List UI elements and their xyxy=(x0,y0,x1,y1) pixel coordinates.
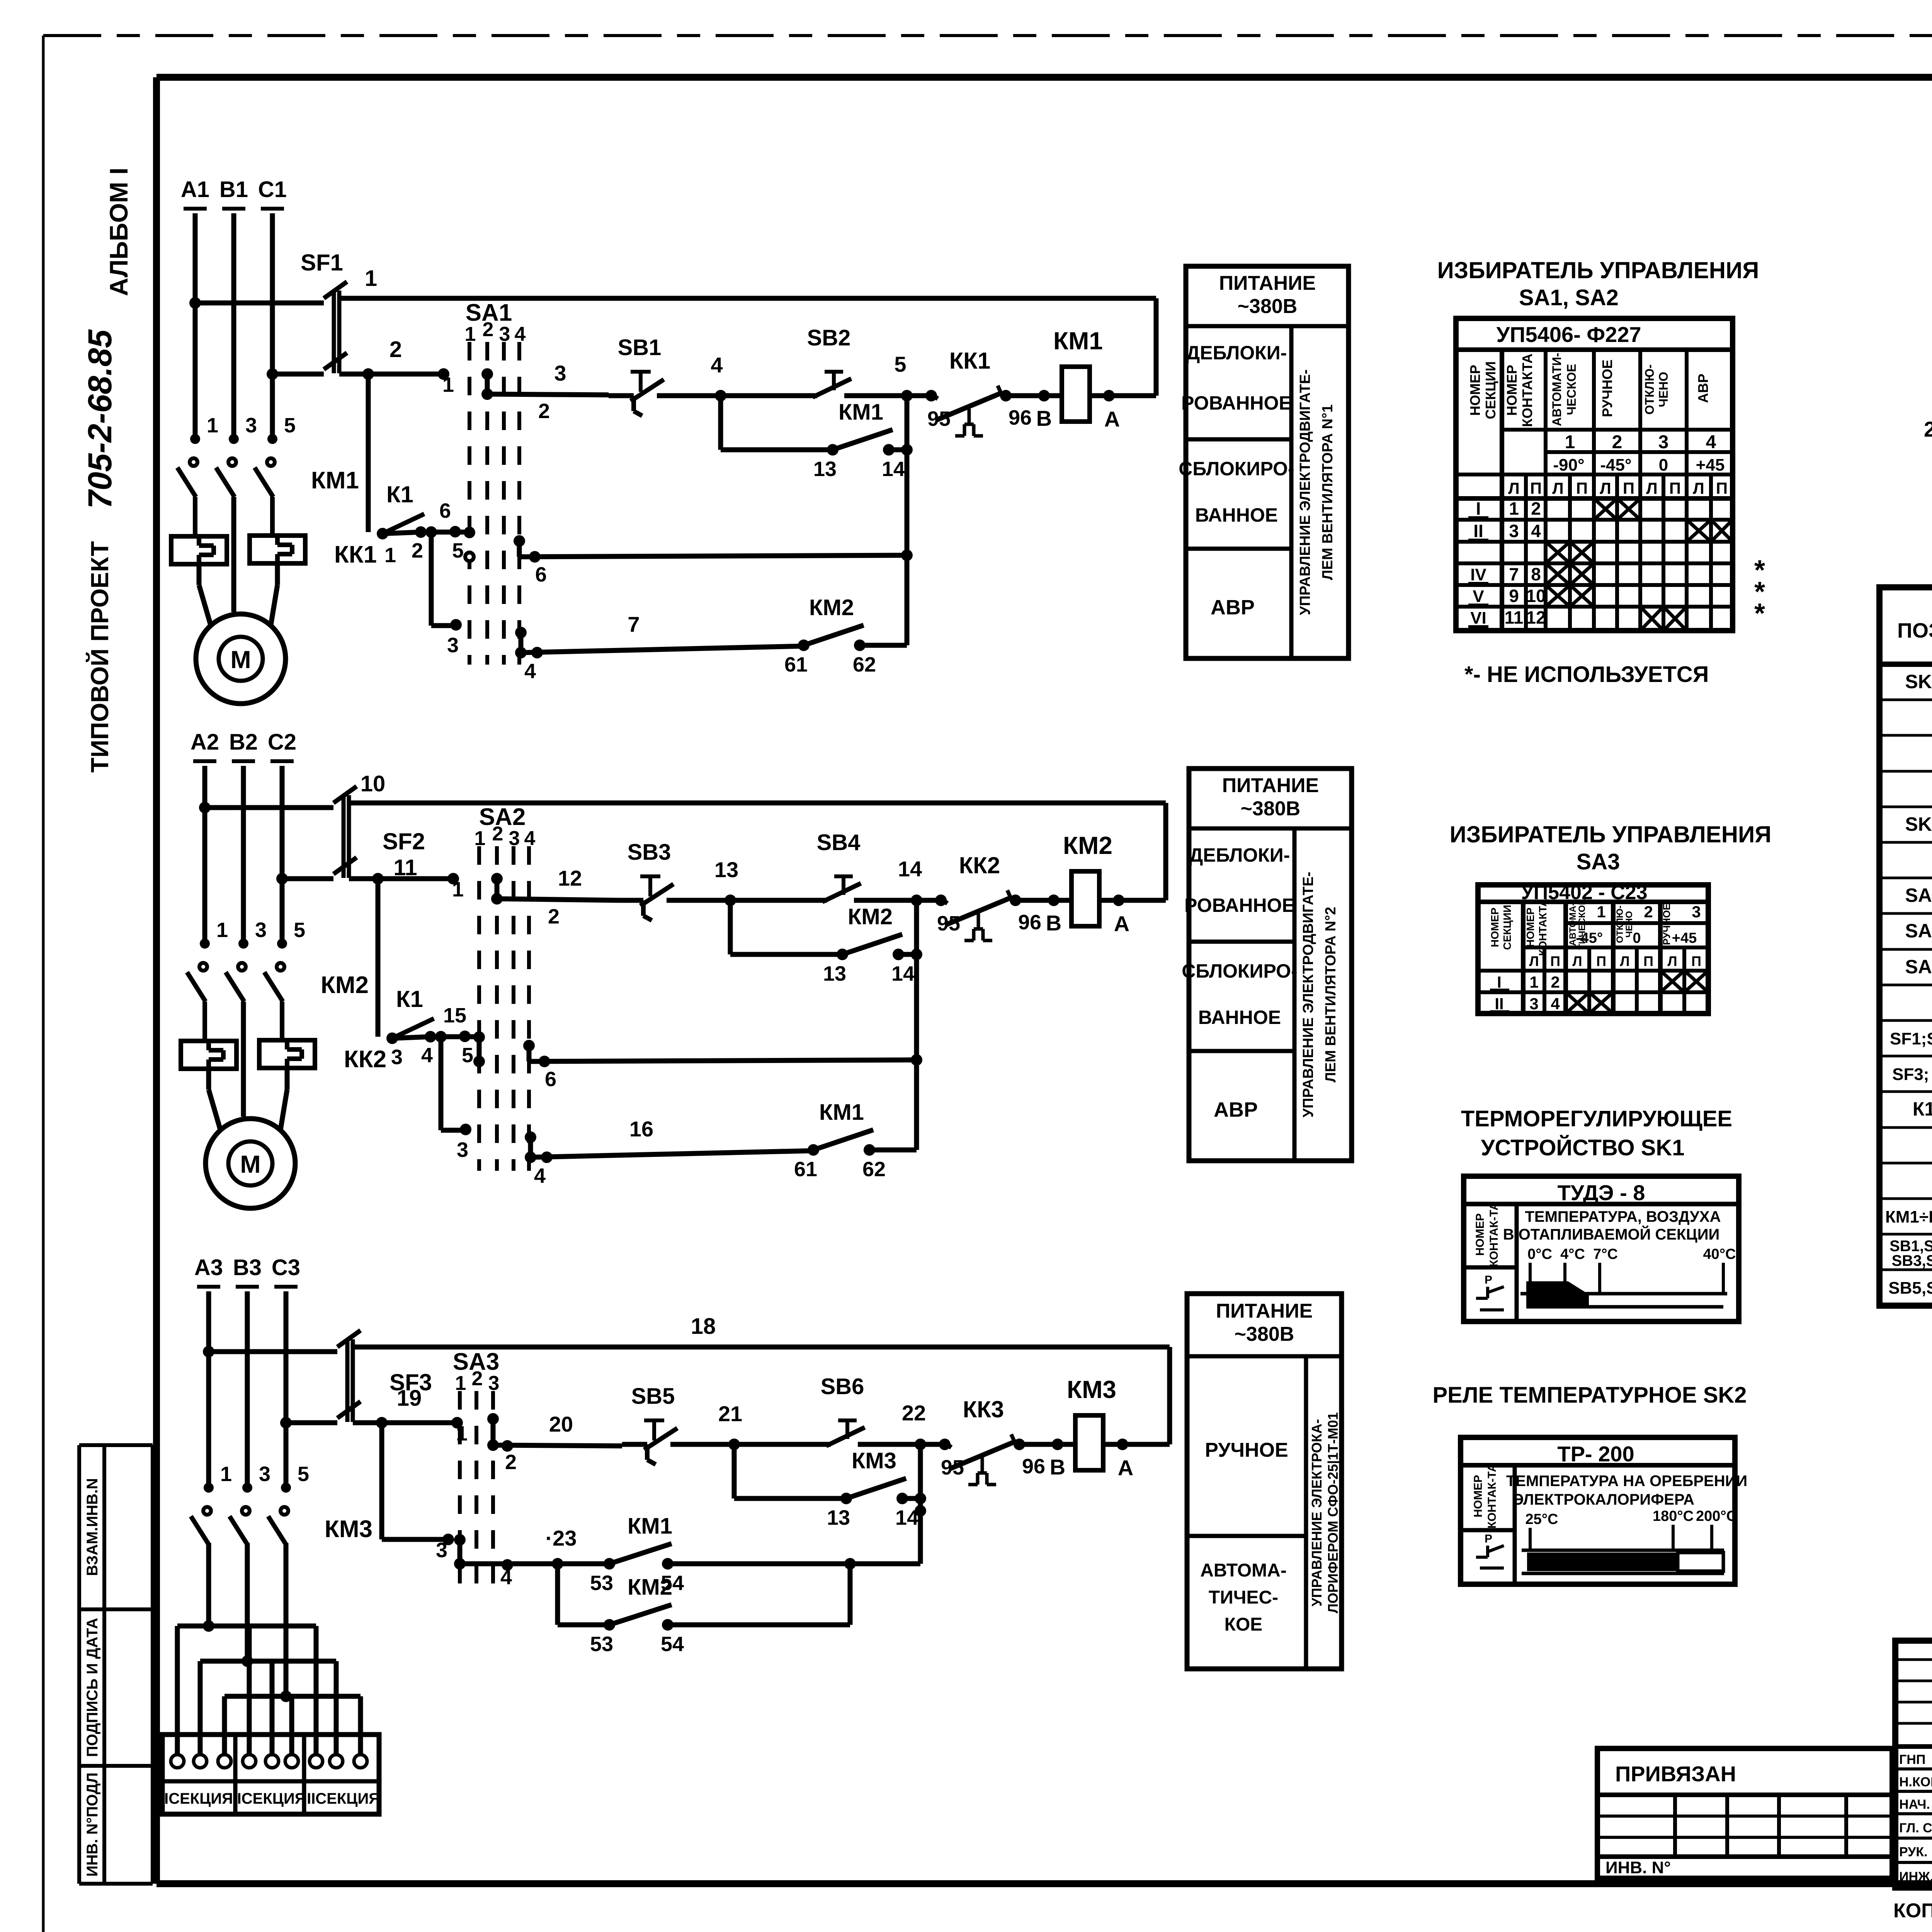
svg-text:4: 4 xyxy=(515,323,526,345)
selector SA1 contact pos4 (wire 7) xyxy=(515,627,527,658)
svg-text:КМ1: КМ1 xyxy=(628,1514,672,1539)
svg-text:7: 7 xyxy=(628,612,639,636)
svg-text:14: 14 xyxy=(898,857,922,881)
svg-text:П: П xyxy=(1669,479,1681,497)
svg-text:УПРАВЛЕНИЕ ЭЛЕКТРОДВИГАТЕ-: УПРАВЛЕНИЕ ЭЛЕКТРОДВИГАТЕ- xyxy=(1297,369,1313,615)
svg-text:РУЧНОЕ: РУЧНОЕ xyxy=(1661,903,1672,945)
svg-text:КМ3: КМ3 xyxy=(325,1516,372,1543)
svg-text:АВР: АВР xyxy=(1695,374,1711,403)
phase terminal В2 xyxy=(229,730,258,761)
svg-text:IIIСЕКЦИЯ: IIIСЕКЦИЯ xyxy=(303,1790,380,1807)
svg-text:РУЧНОЕ: РУЧНОЕ xyxy=(1205,1439,1288,1461)
svg-text:ТЕМПЕРАТУРА, ВОЗДУХА: ТЕМПЕРАТУРА, ВОЗДУХА xyxy=(1525,1208,1721,1225)
svg-text:П: П xyxy=(1530,479,1542,497)
phase terminal С2 xyxy=(268,730,296,761)
selector table SA3 title xyxy=(1450,821,1772,874)
svg-text:С1: С1 xyxy=(258,177,287,202)
svg-text:SB4: SB4 xyxy=(817,830,861,855)
svg-text:SB1: SB1 xyxy=(618,335,662,360)
SK2 table ТР-200 xyxy=(1461,1437,1747,1584)
heater phase feeders xyxy=(203,1543,292,1702)
svg-text:ТЕРМОРЕГУЛИРУЮЩЕЕ: ТЕРМОРЕГУЛИРУЮЩЕЕ xyxy=(1461,1106,1732,1131)
svg-text:*- НЕ ИСПОЛЬЗУЕТСЯ: *- НЕ ИСПОЛЬЗУЕТСЯ xyxy=(1464,662,1709,687)
svg-text:IСЕКЦИЯ: IСЕКЦИЯ xyxy=(164,1790,233,1807)
svg-text:4: 4 xyxy=(500,1566,512,1589)
svg-text:П: П xyxy=(1576,479,1588,497)
svg-text:КК1: КК1 xyxy=(334,541,377,568)
selector SA2 dashed columns xyxy=(474,804,536,1171)
svg-text:4: 4 xyxy=(421,1044,433,1067)
button SB3 xyxy=(628,840,673,920)
svg-text:1: 1 xyxy=(1565,432,1575,452)
svg-text:40°С: 40°С xyxy=(1703,1246,1736,1262)
svg-text:ПРИВЯЗАН: ПРИВЯЗАН xyxy=(1615,1762,1736,1786)
svg-text:54: 54 xyxy=(661,1633,684,1656)
svg-text:4: 4 xyxy=(1531,521,1541,541)
svg-text:1: 1 xyxy=(1529,973,1538,991)
svg-text:6: 6 xyxy=(439,499,451,522)
svg-text:3: 3 xyxy=(391,1046,403,1069)
button SB4 xyxy=(817,830,861,902)
svg-text:4: 4 xyxy=(524,827,536,850)
svg-text:2: 2 xyxy=(1612,432,1622,452)
interlock contact KM1 53-54 xyxy=(590,1514,684,1595)
svg-text:КК2: КК2 xyxy=(959,852,1000,878)
svg-text:2: 2 xyxy=(412,539,423,562)
svg-text:0°С: 0°С xyxy=(1527,1246,1552,1262)
svg-text:3: 3 xyxy=(245,414,257,437)
svg-text:В: В xyxy=(1036,406,1052,430)
svg-text:II: II xyxy=(1495,995,1503,1013)
svg-text:SA1: SA1 xyxy=(1905,884,1932,906)
svg-text:АЛЬБОМ I: АЛЬБОМ I xyxy=(104,168,133,296)
svg-text:КОНТАКТА: КОНТАКТА xyxy=(1519,354,1535,427)
svg-text:П: П xyxy=(1550,953,1560,969)
svg-text:А3: А3 xyxy=(194,1255,223,1280)
parts list table xyxy=(1879,587,1932,1306)
svg-text:НОМЕР: НОМЕР xyxy=(1472,1475,1485,1517)
svg-text:SA2: SA2 xyxy=(1905,920,1932,942)
svg-text:ДЕБЛОКИ-: ДЕБЛОКИ- xyxy=(1186,342,1287,364)
info box circuit 1 (Питание 380В) xyxy=(1179,266,1349,658)
svg-text:21: 21 xyxy=(718,1401,742,1426)
wire coil to feed xyxy=(1103,1347,1170,1480)
svg-text:7: 7 xyxy=(1509,564,1519,584)
svg-text:4: 4 xyxy=(1706,432,1716,452)
svg-text:Л: Л xyxy=(1646,479,1657,497)
svg-text:~380В: ~380В xyxy=(1235,1323,1294,1345)
svg-text:УПРАВЛЕНИЕ ЭЛЕКТРОКА-: УПРАВЛЕНИЕ ЭЛЕКТРОКА- xyxy=(1309,1419,1325,1606)
svg-text:НОМЕР: НОМЕР xyxy=(1474,1213,1486,1256)
svg-text:10: 10 xyxy=(1526,586,1546,606)
svg-text:·23: ·23 xyxy=(546,1526,577,1550)
svg-text:РОВАННОЕ: РОВАННОЕ xyxy=(1181,392,1292,414)
button SB5 xyxy=(631,1384,677,1464)
svg-text:В ОТАПЛИВАЕМОЙ СЕКЦИИ: В ОТАПЛИВАЕМОЙ СЕКЦИИ xyxy=(1503,1225,1719,1243)
svg-text:61: 61 xyxy=(784,653,808,676)
svg-text:Л: Л xyxy=(1620,953,1629,969)
svg-text:4°С: 4°С xyxy=(1560,1246,1585,1262)
selector SA3 dashed columns xyxy=(453,1349,500,1600)
svg-text:705-2-68.85: 705-2-68.85 xyxy=(82,329,119,509)
svg-text:КМ2: КМ2 xyxy=(809,595,854,620)
svg-text:4: 4 xyxy=(524,660,536,683)
self-hold contact КМ1 13-14 xyxy=(721,396,833,450)
svg-text:К1: К1 xyxy=(396,986,423,1012)
svg-text:4: 4 xyxy=(1551,995,1560,1013)
phase terminal А1 xyxy=(181,177,209,209)
svg-text:1: 1 xyxy=(216,918,228,942)
svg-text:РУЧНОЕ: РУЧНОЕ xyxy=(1599,359,1615,417)
svg-text:ТЕМПЕРАТУРА НА ОРЕБРЕНИИ: ТЕМПЕРАТУРА НА ОРЕБРЕНИИ xyxy=(1506,1473,1747,1490)
svg-text:Л: Л xyxy=(1600,479,1611,497)
svg-text:В2: В2 xyxy=(229,730,258,755)
svg-text:П: П xyxy=(1596,953,1606,969)
svg-text:А: А xyxy=(1118,1456,1133,1480)
svg-text:ГНП: ГНП xyxy=(1899,1752,1925,1767)
phase terminal А2 xyxy=(190,730,219,761)
svg-text:КМ2: КМ2 xyxy=(848,904,893,929)
svg-text:180°С: 180°С xyxy=(1653,1508,1694,1524)
svg-text:5: 5 xyxy=(284,414,296,437)
svg-text:НОМЕР: НОМЕР xyxy=(1524,908,1536,947)
svg-text:14: 14 xyxy=(882,457,905,481)
heater sections terminal box xyxy=(162,1735,379,1814)
svg-text:3: 3 xyxy=(259,1463,270,1486)
svg-text:ПИТАНИЕ: ПИТАНИЕ xyxy=(1222,774,1319,797)
svg-text:1: 1 xyxy=(207,414,218,437)
svg-text:5: 5 xyxy=(462,1044,473,1067)
svg-text:25°С: 25°С xyxy=(1526,1511,1558,1527)
svg-text:96: 96 xyxy=(1022,1455,1045,1478)
wire 24 xyxy=(1924,417,1932,454)
svg-text:SB2: SB2 xyxy=(807,325,851,350)
relay contact K1 (circuit 2) xyxy=(378,879,485,1069)
control rung wire (node 13-14) xyxy=(618,857,941,906)
privyazan block xyxy=(1597,1748,1892,1878)
svg-text:ИЗБИРАТЕЛЬ УПРАВЛЕНИЯ: ИЗБИРАТЕЛЬ УПРАВЛЕНИЯ xyxy=(1450,821,1772,847)
svg-text:3: 3 xyxy=(509,827,520,850)
wire to self-hold node xyxy=(668,1498,926,1570)
svg-text:~380В: ~380В xyxy=(1238,295,1298,318)
wire 18 (380V feed) xyxy=(353,1314,1170,1347)
svg-text:2: 2 xyxy=(1644,903,1653,921)
selector table SA1 SA2 xyxy=(1456,318,1733,631)
svg-text:11: 11 xyxy=(1505,607,1524,628)
svg-text:61: 61 xyxy=(794,1158,817,1181)
selector SA1 dashed columns xyxy=(465,299,526,665)
svg-text:SF1;SF2: SF1;SF2 xyxy=(1890,1029,1932,1048)
svg-text:СБЛОКИРО-: СБЛОКИРО- xyxy=(1179,458,1294,480)
svg-text:НОМЕР: НОМЕР xyxy=(1467,365,1483,416)
svg-text:СБЛОКИРО-: СБЛОКИРО- xyxy=(1182,960,1297,982)
svg-text:НОМЕР: НОМЕР xyxy=(1489,908,1501,947)
svg-text:Р: Р xyxy=(1485,1274,1492,1286)
phase vertical wires xyxy=(195,213,272,440)
svg-text:-90°: -90° xyxy=(1553,456,1584,474)
svg-text:ПИТАНИЕ: ПИТАНИЕ xyxy=(1219,272,1316,294)
svg-text:КМ3: КМ3 xyxy=(1067,1376,1116,1403)
phase terminal В1 xyxy=(219,177,248,209)
svg-text:SA1, SA2: SA1, SA2 xyxy=(1519,285,1619,310)
svg-text:Л: Л xyxy=(1693,479,1704,497)
selector table SA3 xyxy=(1478,881,1708,1014)
wire to contact 3 (circuit 1) xyxy=(431,532,462,657)
svg-text:24: 24 xyxy=(1924,417,1932,441)
svg-text:ЭЛЕКТРОКАЛОРИФЕРА: ЭЛЕКТРОКАЛОРИФЕРА xyxy=(1513,1491,1694,1508)
thermal relay КК1 heaters xyxy=(171,497,377,612)
svg-text:КМ2: КМ2 xyxy=(321,972,369,998)
svg-text:ВАННОЕ: ВАННОЕ xyxy=(1195,504,1278,526)
svg-text:SF3; SF: SF3; SF xyxy=(1892,1065,1932,1084)
parallel branch with KM2 53-54 xyxy=(558,1564,609,1625)
svg-text:14: 14 xyxy=(891,962,915,985)
svg-text:КК3: КК3 xyxy=(963,1396,1004,1422)
svg-text:КОНТАК-ТА: КОНТАК-ТА xyxy=(1488,1202,1500,1267)
svg-text:3: 3 xyxy=(554,361,566,385)
svg-text:22: 22 xyxy=(902,1401,926,1425)
svg-text:6: 6 xyxy=(545,1068,556,1091)
svg-text:НОМЕР: НОМЕР xyxy=(1504,365,1520,416)
svg-text:ЛЕМ ВЕНТИЛЯТОРА N°2: ЛЕМ ВЕНТИЛЯТОРА N°2 xyxy=(1323,907,1339,1083)
svg-text:ВАННОЕ: ВАННОЕ xyxy=(1198,1007,1281,1028)
svg-text:+45: +45 xyxy=(1672,930,1697,946)
svg-text:ИНВ. N°ПОДЛ: ИНВ. N°ПОДЛ xyxy=(84,1772,101,1877)
wire 1 (380V feed) xyxy=(339,266,1156,298)
svg-text:КК1: КК1 xyxy=(949,348,991,374)
svg-text:РЕЛЕ ТЕМПЕРАТУРНОЕ SK2: РЕЛЕ ТЕМПЕРАТУРНОЕ SK2 xyxy=(1432,1383,1747,1408)
svg-text:SF2: SF2 xyxy=(383,828,425,854)
svg-text:КМ1: КМ1 xyxy=(1053,327,1103,355)
asterisks right of table xyxy=(1754,555,1765,629)
SK1 table ТУДЭ-8 xyxy=(1464,1176,1739,1321)
bus B to terminals 2-5-8 xyxy=(200,1661,336,1754)
contactor КМ3 main contacts xyxy=(191,1463,372,1546)
svg-text:КК2: КК2 xyxy=(344,1046,386,1073)
svg-text:АВТОМА-: АВТОМА- xyxy=(1200,1560,1287,1581)
bus A to terminals 1-4-7 xyxy=(177,1626,316,1754)
contactor КМ2 main contacts xyxy=(187,918,369,1041)
svg-text:5: 5 xyxy=(298,1463,309,1486)
svg-text:19: 19 xyxy=(397,1386,422,1411)
selector SA2 contact pos2 (wire 11-12) xyxy=(491,873,503,905)
svg-text:13: 13 xyxy=(823,962,846,985)
wire 16 with KM1 interlock contact 61-62 xyxy=(531,1117,813,1187)
svg-text:НАЧ. ОТД: НАЧ. ОТД xyxy=(1899,1797,1932,1812)
svg-text:12: 12 xyxy=(558,866,582,890)
svg-text:0: 0 xyxy=(1633,930,1641,946)
svg-text:3: 3 xyxy=(1692,903,1701,921)
svg-text:200°С: 200°С xyxy=(1696,1508,1737,1524)
svg-text:А1: А1 xyxy=(181,177,209,202)
svg-text:5: 5 xyxy=(894,352,906,376)
svg-text:2: 2 xyxy=(1531,498,1541,519)
svg-text:К1: К1 xyxy=(386,481,413,507)
svg-text:2: 2 xyxy=(483,318,494,341)
svg-text:3: 3 xyxy=(447,634,459,657)
svg-text:3: 3 xyxy=(457,1138,468,1162)
wire 6 (AVR link circuit 1) xyxy=(514,535,913,586)
control rung wire (node 4-5) xyxy=(609,352,931,401)
wire to contact 3 (circuit 2) xyxy=(441,1037,471,1162)
svg-text:В3: В3 xyxy=(233,1255,262,1280)
selector SA3 contact lower (wire 23) xyxy=(454,1534,466,1570)
parts list rows xyxy=(1879,671,1932,1298)
thermal contact КК1 95-96 xyxy=(925,348,990,430)
svg-text:SB6: SB6 xyxy=(821,1374,864,1399)
svg-text:9: 9 xyxy=(1509,586,1519,606)
svg-text:А: А xyxy=(1104,407,1120,431)
svg-text:SA3: SA3 xyxy=(1577,849,1620,874)
svg-text:5: 5 xyxy=(452,539,464,562)
svg-text:1: 1 xyxy=(455,1372,466,1395)
svg-text:3: 3 xyxy=(1529,995,1538,1013)
svg-text:-45°: -45° xyxy=(1576,930,1603,946)
svg-text:IIСЕКЦИЯ: IIСЕКЦИЯ xyxy=(233,1790,306,1807)
phase vertical wires xyxy=(209,1291,286,1489)
svg-text:11: 11 xyxy=(393,855,417,880)
svg-text:1: 1 xyxy=(365,266,377,291)
svg-text:20: 20 xyxy=(549,1412,573,1436)
wire 20 to SB5 xyxy=(493,1412,622,1474)
svg-text:2: 2 xyxy=(1551,973,1560,991)
svg-text:4: 4 xyxy=(711,353,723,377)
svg-text:Н.КОНТР.: Н.КОНТР. xyxy=(1899,1775,1932,1789)
info box circuit 2 (Питание 380В) xyxy=(1182,769,1352,1161)
selector SA1 contact pos2 (wire 2-3) xyxy=(481,368,493,400)
wire 11 to selector xyxy=(349,855,464,901)
selector table SA1 X marks xyxy=(1546,498,1733,631)
svg-text:62: 62 xyxy=(862,1158,886,1181)
svg-text:ОТКЛЮ-: ОТКЛЮ- xyxy=(1643,364,1656,415)
svg-text:СЕКЦИИ: СЕКЦИИ xyxy=(1501,905,1513,950)
svg-text:ДЕБЛОКИ-: ДЕБЛОКИ- xyxy=(1189,844,1290,866)
svg-text:ЛОРИФЕРОМ СФО-25|1Т-М01: ЛОРИФЕРОМ СФО-25|1Т-М01 xyxy=(1325,1412,1341,1613)
svg-text:П: П xyxy=(1691,953,1701,969)
svg-text:Л: Л xyxy=(1572,953,1582,969)
svg-text:96: 96 xyxy=(1018,911,1041,934)
selector table SA3 X marks xyxy=(1566,971,1708,1014)
phase terminal В3 xyxy=(233,1255,262,1287)
svg-text:SA3: SA3 xyxy=(1905,956,1932,978)
svg-text:SB3,SB4: SB3,SB4 xyxy=(1892,1252,1932,1269)
phase vertical wires xyxy=(205,766,282,945)
svg-text:КМ1: КМ1 xyxy=(311,467,359,494)
svg-text:КМ1: КМ1 xyxy=(819,1100,864,1125)
svg-text:1: 1 xyxy=(220,1463,232,1486)
svg-text:М: М xyxy=(240,1150,260,1178)
svg-text:КОЕ: КОЕ xyxy=(1225,1614,1263,1635)
selector SA3 contact (wire 19-20) xyxy=(487,1413,499,1451)
svg-text:К1: К1 xyxy=(1913,1098,1932,1120)
phase terminal С1 xyxy=(258,177,287,209)
svg-text:V: V xyxy=(1473,587,1484,606)
svg-text:2: 2 xyxy=(538,400,550,423)
wire coil to feed xyxy=(1090,298,1156,431)
motor M1 xyxy=(196,563,286,704)
svg-text:2: 2 xyxy=(472,1367,483,1390)
svg-text:КОНТАКТА: КОНТАКТА xyxy=(1537,899,1549,956)
svg-text:П: П xyxy=(1643,953,1653,969)
button SB1 xyxy=(618,335,664,416)
wire 3 to SB1 xyxy=(487,361,609,423)
svg-text:Л: Л xyxy=(1508,479,1519,497)
breaker SF3 xyxy=(203,1330,432,1429)
svg-text:А: А xyxy=(1114,912,1129,936)
svg-text:С3: С3 xyxy=(272,1255,300,1280)
wire 23 node xyxy=(460,1526,609,1589)
svg-text:7°С: 7°С xyxy=(1593,1246,1618,1262)
svg-text:13: 13 xyxy=(827,1506,850,1529)
svg-text:13: 13 xyxy=(813,457,837,481)
svg-text:1: 1 xyxy=(1597,903,1605,921)
svg-text:15: 15 xyxy=(443,1004,466,1027)
svg-text:Л: Л xyxy=(1552,479,1563,497)
svg-text:А2: А2 xyxy=(190,730,219,755)
phase terminal С3 xyxy=(272,1255,300,1287)
svg-text:1: 1 xyxy=(465,323,476,345)
svg-text:КМ2: КМ2 xyxy=(1063,832,1112,859)
self-hold contact КМ2 13-14 xyxy=(730,900,842,954)
svg-text:ТР- 200: ТР- 200 xyxy=(1557,1442,1634,1466)
svg-text:10: 10 xyxy=(361,771,386,796)
svg-text:КМ1: КМ1 xyxy=(838,400,883,425)
svg-text:ВЗАМ.ИНВ.N: ВЗАМ.ИНВ.N xyxy=(84,1478,101,1576)
contactor coil КМ1 xyxy=(1053,327,1103,422)
svg-text:П: П xyxy=(1623,479,1634,497)
SK1 table title xyxy=(1461,1106,1732,1160)
svg-text:SB5: SB5 xyxy=(631,1384,675,1409)
svg-text:1: 1 xyxy=(384,544,396,567)
wire 2 to selector xyxy=(339,337,454,396)
svg-text:53: 53 xyxy=(590,1633,613,1656)
svg-text:0: 0 xyxy=(1659,456,1668,474)
wire 12 to SB3 xyxy=(497,866,618,928)
info box circuit 3 (Питание 380В) xyxy=(1187,1294,1342,1669)
svg-text:В: В xyxy=(1046,911,1061,935)
svg-text:АВР: АВР xyxy=(1211,596,1255,619)
svg-text:ТУДЭ - 8: ТУДЭ - 8 xyxy=(1558,1180,1645,1205)
svg-text:П: П xyxy=(1716,479,1728,497)
contactor КМ1 main contacts xyxy=(177,414,359,536)
button SB6 xyxy=(821,1374,865,1446)
svg-text:УСТРОЙСТВО SK1: УСТРОЙСТВО SK1 xyxy=(1481,1135,1684,1160)
svg-text:VI: VI xyxy=(1470,609,1486,628)
svg-text:18: 18 xyxy=(691,1314,716,1339)
svg-text:3: 3 xyxy=(255,918,267,942)
svg-text:3: 3 xyxy=(1658,432,1669,452)
svg-text:УПРАВЛЕНИЕ ЭЛЕКТРОДВИГАТЕ-: УПРАВЛЕНИЕ ЭЛЕКТРОДВИГАТЕ- xyxy=(1300,872,1316,1117)
svg-text:5: 5 xyxy=(294,918,305,942)
svg-text:КОНТАК-ТА: КОНТАК-ТА xyxy=(1486,1464,1498,1529)
wire 10 (380V feed) xyxy=(349,771,1166,803)
svg-text:SB3: SB3 xyxy=(628,840,671,865)
svg-text:РУК. ГР.: РУК. ГР. xyxy=(1899,1845,1932,1859)
svg-text:SK1: SK1 xyxy=(1905,671,1932,692)
svg-text:SK2: SK2 xyxy=(1905,813,1932,835)
svg-text:ИНВ. N°: ИНВ. N° xyxy=(1605,1858,1671,1877)
svg-text:1: 1 xyxy=(452,878,464,901)
selector table SA1 SA2 title xyxy=(1437,257,1759,310)
svg-text:ПОЗ.: ПОЗ. xyxy=(1897,619,1932,642)
svg-text:13: 13 xyxy=(714,857,738,882)
svg-text:96: 96 xyxy=(1009,406,1032,429)
thermal contact КК2 95-96 xyxy=(935,852,1000,935)
svg-text:ГЛ. СПЕЦ.: ГЛ. СПЕЦ. xyxy=(1899,1821,1932,1835)
footer texts xyxy=(1893,1883,1932,1923)
svg-text:2: 2 xyxy=(505,1451,517,1474)
wire 6 (AVR link circuit 2) xyxy=(523,1040,922,1091)
